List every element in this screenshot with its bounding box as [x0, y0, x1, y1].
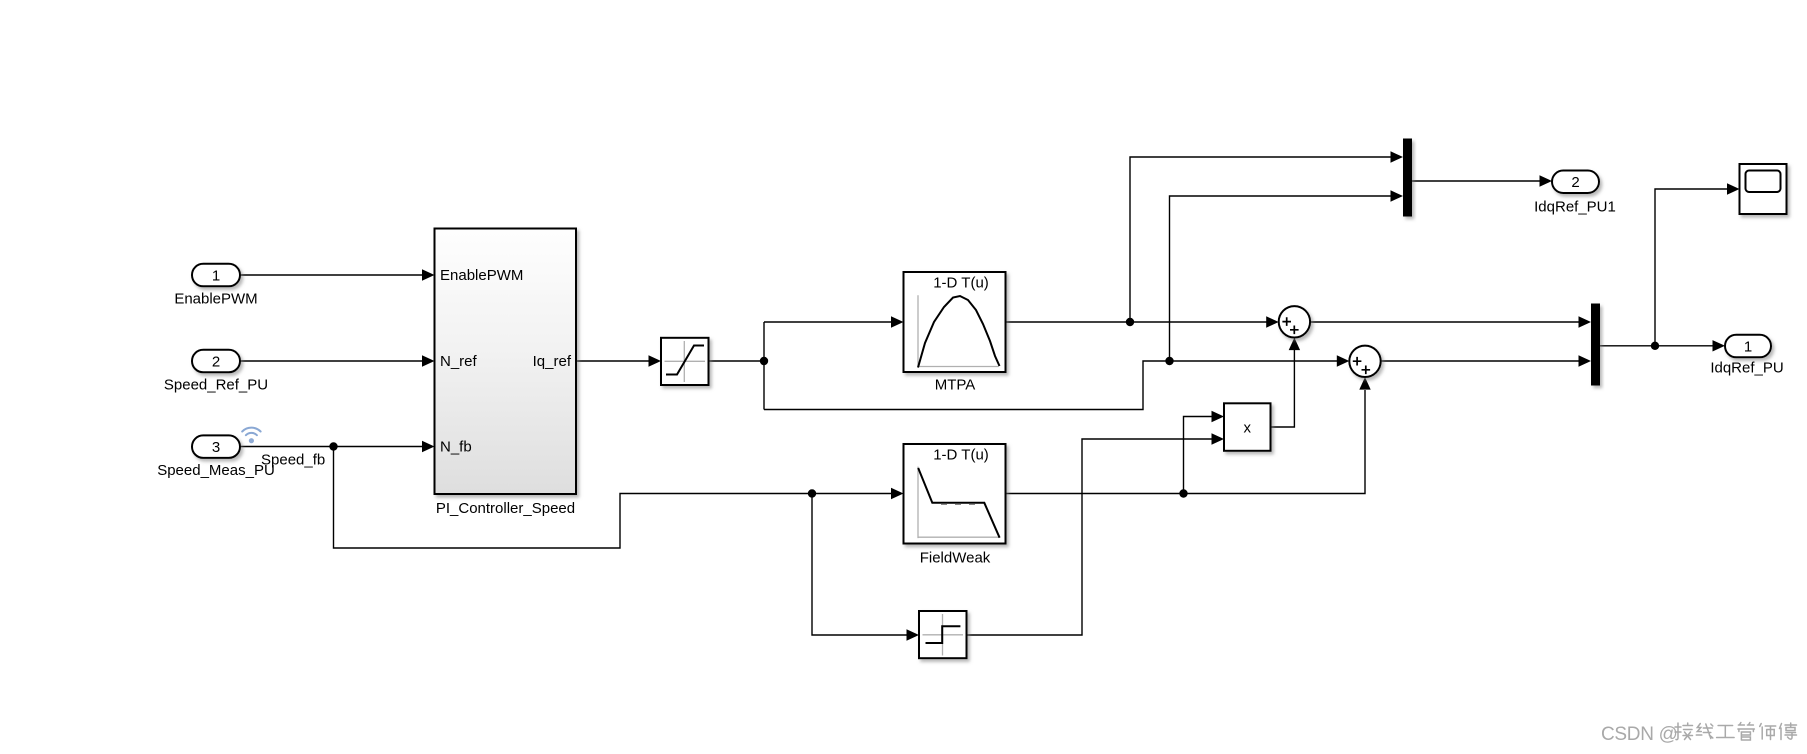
arrowhead MTPA input: [891, 316, 904, 327]
logging badge wireless icon: [242, 428, 260, 444]
svg-text:IdqRef_PU1: IdqRef_PU1: [1534, 199, 1616, 216]
arrowhead PI EnablePWM: [422, 269, 435, 280]
arrowhead PI N_fb: [422, 441, 435, 452]
svg-text:1: 1: [212, 267, 220, 284]
svg-text:EnablePWM: EnablePWM: [174, 291, 257, 308]
wire branch down to relay input: [812, 494, 908, 636]
wire MTPA output to sum1: [1006, 321, 1268, 323]
arrowhead port IdqRef_PU1: [1540, 175, 1553, 186]
svg-text:2: 2: [212, 353, 220, 370]
wire branch up to mux1 input1: [1130, 157, 1392, 322]
junction node saturation output: [760, 357, 768, 365]
svg-text:3: 3: [212, 439, 220, 456]
product block: [1224, 403, 1271, 451]
sum block S1: [1279, 306, 1310, 337]
arrowhead mux2 input1: [1579, 316, 1592, 327]
svg-text:1: 1: [1744, 339, 1752, 356]
junction node FieldWeak input: [808, 489, 816, 497]
junction node Iq branch: [1165, 357, 1173, 365]
wire port3 Speed_Meas_PU to PI block N_fb: [240, 446, 424, 448]
arrowhead scope input: [1727, 183, 1740, 194]
arrowhead mux1 input1: [1391, 151, 1404, 162]
wire port1 EnablePWM to PI block: [240, 274, 424, 276]
outport 2 IdqRef_PU1: [1552, 171, 1599, 194]
arrowhead sum1 left input: [1266, 316, 1279, 327]
svg-text:Iq_ref: Iq_ref: [533, 353, 572, 370]
arrowhead relay input: [907, 629, 920, 640]
svg-text:MTPA: MTPA: [935, 377, 976, 394]
lookup table MTPA: [904, 272, 1006, 372]
junction node mux2 output: [1651, 342, 1659, 350]
arrowhead sum2 bottom input: [1359, 377, 1370, 390]
wire Iq_ref to saturation: [577, 360, 651, 362]
svg-text:IdqRef_PU: IdqRef_PU: [1710, 360, 1783, 377]
svg-text:N_fb: N_fb: [440, 439, 472, 456]
arrowhead mux2 input2: [1579, 355, 1592, 366]
svg-text:Speed_fb: Speed_fb: [261, 452, 325, 469]
arrowhead mux1 input2: [1391, 190, 1404, 201]
svg-text:FieldWeak: FieldWeak: [920, 549, 991, 566]
subsystem PI_Controller_Speed: [435, 229, 577, 495]
wire product output to sum1 bottom: [1271, 350, 1295, 427]
wire branch up to scope: [1655, 189, 1729, 346]
wire mux2 output to port IdqRef_PU: [1600, 345, 1714, 347]
arrowhead product input2: [1212, 433, 1225, 444]
watermark chinese glyphs: [1675, 723, 1797, 741]
relay block: [919, 611, 967, 658]
wire sum1 output to mux2 input1: [1310, 321, 1580, 323]
junction node FieldWeak output: [1179, 489, 1187, 497]
svg-text:N_ref: N_ref: [440, 353, 478, 370]
wire Speed_fb branch to FieldWeak input: [334, 447, 893, 549]
sum block S2: [1349, 346, 1380, 377]
junction node MTPA output: [1126, 318, 1134, 326]
wire relay output to product input2: [967, 439, 1214, 635]
svg-text:2: 2: [1571, 174, 1579, 191]
wire port2 Speed_Ref_PU to PI block N_ref: [240, 360, 424, 362]
wire mux1 output to port IdqRef_PU1: [1412, 180, 1541, 182]
wire sum2 output to mux2 input2: [1381, 360, 1580, 362]
inport 2 Speed_Ref_PU: [192, 350, 240, 373]
svg-text:1-D T(u): 1-D T(u): [933, 275, 989, 292]
svg-text:x: x: [1243, 419, 1251, 436]
lookup table FieldWeak: [904, 444, 1006, 544]
arrowhead FieldWeak input: [891, 488, 904, 499]
mux block 1: [1403, 139, 1412, 217]
arrowhead sum2 left input: [1337, 355, 1350, 366]
inport 1 EnablePWM: [192, 264, 240, 287]
arrowhead sum1 bottom input: [1289, 338, 1300, 351]
svg-text:PI_Controller_Speed: PI_Controller_Speed: [436, 500, 575, 517]
wire saturation lower branch to sum2: [764, 361, 1338, 410]
arrowhead port IdqRef_PU: [1713, 340, 1726, 351]
svg-text:CSDN @: CSDN @: [1601, 724, 1678, 745]
svg-text:EnablePWM: EnablePWM: [440, 267, 523, 284]
inport 3 Speed_Meas_PU: [192, 435, 240, 458]
arrowhead PI N_ref: [422, 355, 435, 366]
svg-text:Speed_Meas_PU: Speed_Meas_PU: [157, 462, 275, 479]
svg-text:1-D T(u): 1-D T(u): [933, 447, 989, 464]
wire FieldWeak output to sum2 bottom: [1006, 390, 1366, 494]
arrowhead saturation input: [649, 355, 662, 366]
junction node Speed_fb: [329, 442, 337, 450]
wire saturation output vertical branch: [709, 322, 765, 410]
wire branch up to mux1 input2: [1170, 196, 1393, 361]
wire saturation to MTPA: [764, 321, 892, 323]
mux block 2: [1591, 304, 1600, 386]
scope block: [1740, 164, 1787, 214]
saturation block: [661, 338, 709, 385]
outport 1 IdqRef_PU: [1725, 335, 1771, 358]
wire FieldWeak output branch to product input1: [1184, 417, 1214, 494]
svg-text:Speed_Ref_PU: Speed_Ref_PU: [164, 377, 268, 394]
arrowhead product input1: [1212, 411, 1225, 422]
